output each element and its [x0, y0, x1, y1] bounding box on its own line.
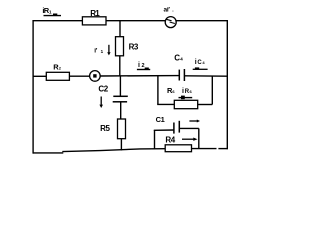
resistor R3: [116, 37, 124, 56]
svg-text:ai′: ai′: [164, 7, 171, 14]
wire middle row: C4 to right edge: [185, 75, 228, 77]
resistor R1: [82, 17, 106, 25]
wire loop left to R6: [157, 103, 174, 105]
source circle with dot (middle): [90, 71, 101, 82]
svg-text:R5: R5: [100, 124, 110, 133]
wire R5 to bottom: [120, 139, 122, 151]
svg-text:2: 2: [142, 63, 145, 69]
wire middle row: circle to C4: [100, 75, 179, 77]
current arrow iR1 (top left): [44, 15, 62, 16]
current arrow at C1 (right): [189, 120, 200, 123]
wire C1 loop left riser: [154, 130, 156, 149]
wire C2 to R5: [120, 102, 122, 119]
resistor R5: [118, 119, 126, 139]
wire middle row: left edge to R2: [33, 75, 46, 77]
current arrow at C2 (down): [99, 97, 103, 109]
wire C1 loop top-right: [179, 127, 199, 129]
dependent source circle (top): [165, 17, 176, 28]
wire C4-R6 loop left drop: [157, 76, 159, 105]
svg-text:C1: C1: [156, 115, 165, 124]
wire middle node to C2: [119, 76, 121, 96]
current arrow i'1 (down): [107, 45, 110, 56]
wire loop right riser: [211, 76, 213, 105]
current arrow iR6: [179, 96, 193, 100]
svg-text:R4: R4: [165, 135, 175, 144]
wire bottom right stub after gap: [218, 148, 227, 150]
wire top right segment: [176, 20, 228, 22]
wire R6 to loop right: [198, 104, 213, 106]
wire middle row: R2 to source circle: [69, 75, 89, 77]
resistor R4: [165, 145, 191, 152]
capacitor C1: [174, 121, 179, 134]
wire C1 loop top-left: [154, 129, 174, 131]
current arrow at R4 (right): [182, 138, 198, 141]
wire left edge: [32, 20, 34, 154]
svg-text:C2: C2: [98, 84, 108, 93]
svg-text:R1: R1: [90, 9, 100, 18]
wire bottom right: [191, 148, 216, 150]
wire right edge: [226, 20, 228, 149]
wire bottom middle: [62, 149, 165, 152]
wire R3 bottom stub to middle wire: [119, 56, 121, 77]
wire bottom left: [33, 152, 63, 154]
wire top middle segment: [106, 20, 165, 22]
resistor R6: [174, 100, 197, 108]
svg-text:R3: R3: [129, 43, 139, 52]
current arrow i2: [137, 69, 150, 70]
resistor R2: [46, 72, 69, 80]
capacitor C4: [179, 69, 184, 81]
wire top-left segment: [33, 20, 82, 22]
wire R3 top stub: [119, 21, 121, 37]
capacitor C2: [113, 96, 128, 102]
current arrow iC4: [193, 68, 208, 71]
wire C1 loop right drop: [198, 128, 200, 148]
